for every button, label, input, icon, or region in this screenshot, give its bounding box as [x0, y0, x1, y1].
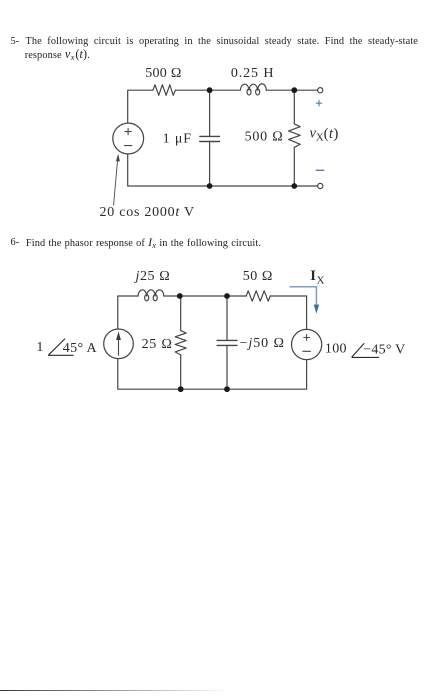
wire: below current source to bottom-left corner: [118, 359, 181, 390]
capacitor -j50ohm plates: [217, 340, 237, 345]
wire: bottom middle segment: [210, 185, 295, 187]
wire: node C down to resistor 25: [180, 296, 182, 331]
svg-text:0.25 H: 0.25 H: [231, 66, 275, 81]
capacitor C 1uF bottom wire: [209, 142, 211, 187]
wire: top-left corner to inductor: [118, 296, 138, 329]
wire: node D down to capacitor: [226, 296, 228, 340]
VS2 minus sign: [303, 350, 311, 352]
wire: top-left segment from source to resistor: [128, 90, 153, 123]
node A junction dot: [207, 87, 213, 93]
label Ix blue: [310, 268, 324, 287]
svg-text:): ): [333, 126, 338, 142]
bottom node dot under capacitor: [207, 183, 213, 189]
svg-text:500 Ω: 500 Ω: [145, 66, 182, 81]
problem 5 number: [11, 35, 20, 48]
pointer arrow to source: [114, 154, 120, 205]
wire: resistor to node A: [175, 89, 240, 91]
CS1 arrow: [116, 332, 121, 356]
label vx(t) blue: [310, 126, 339, 144]
bottom dot under capacitor: [224, 386, 230, 392]
svg-text:1 μF: 1 μF: [163, 131, 192, 146]
current source CS1 circle: [104, 329, 134, 359]
label 1 angle 45 A: [36, 339, 97, 357]
svg-text:j25 Ω: j25 Ω: [134, 269, 171, 284]
svg-text:50 Ω: 50 Ω: [243, 269, 273, 284]
svg-text:I: I: [310, 268, 316, 284]
minus sign blue bottom right: [316, 169, 325, 171]
problem 5 statement line 2: [25, 48, 90, 62]
node C junction dot: [177, 293, 183, 299]
svg-text:1: 1: [36, 340, 43, 355]
wire: bottom middle: [181, 388, 227, 390]
node B junction dot: [291, 87, 297, 93]
open terminal bottom right: [318, 183, 323, 188]
plus sign blue top right: [316, 100, 322, 106]
wire: node B down to resistor: [293, 90, 295, 124]
inductor j25ohm: [138, 290, 164, 301]
wire: inductor to top-right terminal: [266, 89, 317, 91]
problem 5 statement line 1: [26, 35, 419, 48]
problem 6 statement: [11, 236, 20, 249]
label 100 angle -45 V: [325, 342, 406, 358]
wire: resistor to top-right corner down to source: [270, 296, 306, 329]
VS1 plus sign: [125, 128, 131, 134]
svg-text:(: (: [324, 126, 329, 142]
svg-text:25 Ω: 25 Ω: [142, 337, 173, 352]
wire: resistor 25 to bottom: [180, 355, 182, 389]
capacitor C 1uF plates: [200, 136, 220, 141]
voltage source VS2 circle: [292, 329, 322, 359]
svg-text:X: X: [317, 275, 325, 287]
resistor R 25ohm vertical: [175, 331, 186, 355]
svg-text:−45° V: −45° V: [363, 342, 405, 357]
svg-text:−j50 Ω: −j50 Ω: [240, 336, 285, 351]
svg-text:45° A: 45° A: [63, 341, 98, 356]
bottom node dot under resistor: [291, 183, 297, 189]
current arrow Ix (blue): [290, 287, 320, 314]
bottom page-edge scan line: [0, 690, 232, 691]
wire: node D to resistor 50: [227, 295, 246, 297]
capacitor -j50 bottom wire: [226, 345, 228, 389]
wire: bottom right: [227, 360, 307, 390]
svg-text:100: 100: [325, 342, 347, 357]
svg-text:20 cos 2000t V: 20 cos 2000t V: [100, 205, 195, 220]
VS2 plus sign: [304, 335, 310, 341]
wire: left rail below source to bottom-left corner: [128, 154, 210, 186]
node D junction dot: [224, 293, 230, 299]
svg-text:500 Ω: 500 Ω: [245, 130, 284, 145]
resistor R 500ohm horizontal: [153, 85, 176, 96]
problem 6 statement text: [26, 236, 261, 250]
wire: resistor to bottom node: [293, 147, 295, 186]
resistor R 500ohm vertical: [289, 124, 301, 147]
voltage source VS1 circle: [113, 123, 144, 154]
VS1 minus sign: [124, 145, 131, 147]
inductor L 0.25H: [240, 84, 266, 95]
resistor R 50ohm horizontal: [246, 291, 270, 301]
bottom dot under resistor 25: [178, 386, 184, 392]
open terminal top right: [318, 88, 323, 93]
wire: node C to node D: [180, 295, 227, 297]
wire: bottom right to terminal: [294, 185, 317, 187]
capacitor C 1uF branch: top wire: [209, 90, 211, 136]
wire: inductor to node C: [164, 295, 180, 297]
